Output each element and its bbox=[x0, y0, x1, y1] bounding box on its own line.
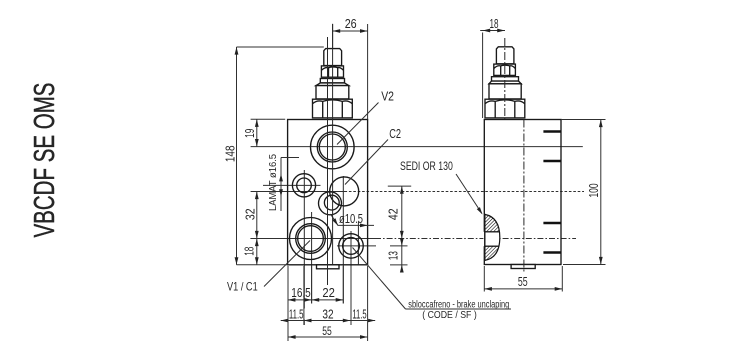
middle pilot hole front bbox=[319, 192, 342, 215]
jam nut front bbox=[321, 66, 343, 77]
svg-text:100: 100 bbox=[586, 184, 601, 198]
dimension 100 right side bbox=[561, 120, 606, 265]
horizontal centerline brake port level y=245.9 bbox=[337, 245, 376, 247]
svg-text:32: 32 bbox=[322, 306, 333, 321]
svg-text:11.5: 11.5 bbox=[289, 306, 304, 321]
dimension 26 top front bbox=[333, 16, 368, 119]
spring housing block front bbox=[316, 86, 349, 99]
hidden edge line x=358.4 bbox=[357, 222, 359, 265]
bottom slot tab front bbox=[317, 265, 340, 269]
O-ring seat hatched section bbox=[483, 214, 499, 261]
MAIN-TITLE bbox=[29, 83, 61, 238]
svg-text:55: 55 bbox=[518, 274, 528, 289]
horizontal centerline LAMAT hole level y=185.4 bbox=[263, 184, 411, 187]
horizontal centerline C2 level y=191.5 solid then dashed bbox=[251, 191, 584, 193]
port C2 front bbox=[330, 177, 359, 206]
long horizontal centerline V2 level y=146.6 bbox=[251, 146, 583, 148]
dimension 18 left front bbox=[242, 239, 259, 265]
dimension 19 left front bbox=[242, 119, 285, 146]
svg-text:26: 26 bbox=[345, 16, 357, 31]
dimension 55 bottom side bbox=[484, 266, 562, 292]
dimension 148 left front bbox=[223, 47, 324, 265]
jam nut side bbox=[494, 64, 516, 75]
label V2 with leader bbox=[337, 90, 394, 145]
extension line C2 center x=343.3 bbox=[342, 176, 344, 304]
dimension 32 left front bbox=[242, 192, 258, 239]
dimension 42 right front bbox=[386, 186, 404, 238]
svg-text:( CODE / SF ): ( CODE / SF ) bbox=[422, 310, 477, 321]
svg-text:32: 32 bbox=[242, 208, 257, 220]
bolt hole LAMAT front bbox=[292, 174, 315, 197]
valve body front bbox=[288, 120, 368, 265]
svg-text:18: 18 bbox=[242, 247, 257, 256]
svg-text:19: 19 bbox=[242, 129, 257, 138]
svg-text:11.5: 11.5 bbox=[352, 306, 366, 321]
svg-text:LAMAT ø16.5: LAMAT ø16.5 bbox=[267, 154, 279, 211]
bottom dimension 55 front bbox=[288, 266, 368, 341]
extension line brake-port column x=351 bbox=[350, 231, 352, 325]
lock nut side bbox=[485, 99, 525, 118]
svg-text:V1 / C1: V1 / C1 bbox=[227, 280, 258, 294]
port V1/C1 front bbox=[290, 218, 332, 260]
svg-text:V2: V2 bbox=[381, 90, 394, 104]
svg-text:55: 55 bbox=[322, 324, 332, 338]
extension line bolt-hole left column x=304.3 bbox=[303, 170, 305, 325]
svg-text:22: 22 bbox=[322, 285, 335, 300]
dimension 18 top side bbox=[480, 16, 505, 118]
side port thread marks right face bbox=[543, 132, 561, 253]
label SEDI OR 130 with leader bbox=[400, 161, 484, 216]
svg-text:42: 42 bbox=[386, 208, 401, 220]
label C2 with leader bbox=[345, 127, 401, 185]
centerline body mid-plane side (dash-dot) bbox=[523, 120, 525, 273]
label V1 / C1 with leader bbox=[227, 241, 310, 294]
svg-text:VBCDF SE OMS: VBCDF SE OMS bbox=[29, 83, 61, 238]
bottom dimension row2 11.5 / 32 / 11.5 front bbox=[281, 306, 376, 322]
port V2 front bbox=[311, 125, 355, 169]
label ø10.5 bbox=[331, 212, 375, 228]
svg-text:ø10.5: ø10.5 bbox=[339, 212, 363, 226]
valve body side bbox=[484, 120, 561, 265]
label sbloccafreno with leader bbox=[353, 248, 512, 322]
bottom dimension row1 16.5 / 22 front bbox=[288, 285, 344, 302]
spring housing block side bbox=[489, 84, 521, 99]
extension line V1/C1 center x=311.6 bbox=[311, 212, 313, 304]
svg-text:13: 13 bbox=[385, 251, 400, 260]
svg-text:SEDI OR 130: SEDI OR 130 bbox=[400, 161, 453, 173]
label LAMAT ø16.5 bbox=[267, 154, 299, 211]
flare chamfer front bbox=[316, 83, 349, 86]
svg-text:18: 18 bbox=[490, 16, 499, 31]
dimension 13 right front bbox=[385, 238, 407, 272]
lock nut front bbox=[313, 99, 353, 118]
bottom slot tab side bbox=[511, 265, 535, 269]
centerline body mid-plane front bbox=[327, 37, 329, 285]
svg-text:sbloccafreno - brake unclaping: sbloccafreno - brake unclaping bbox=[408, 300, 509, 311]
horizontal centerline V1/C1 level y=238.5 solid then dash-dot bbox=[250, 238, 576, 240]
washer disc front bbox=[320, 79, 344, 83]
svg-text:C2: C2 bbox=[389, 127, 401, 141]
adjustment screw stem side bbox=[496, 47, 514, 64]
svg-text:16.5: 16.5 bbox=[291, 285, 311, 300]
adjustment screw stem front bbox=[324, 49, 342, 66]
flare chamfer side bbox=[489, 81, 521, 84]
centerline cartridge axis side (dash-dot) bbox=[504, 38, 506, 119]
centerline axis (cartridge) front bbox=[332, 24, 334, 264]
washer disc side bbox=[492, 77, 519, 81]
svg-text:148: 148 bbox=[223, 146, 238, 163]
brake release port ø10.5 front bbox=[339, 234, 364, 259]
